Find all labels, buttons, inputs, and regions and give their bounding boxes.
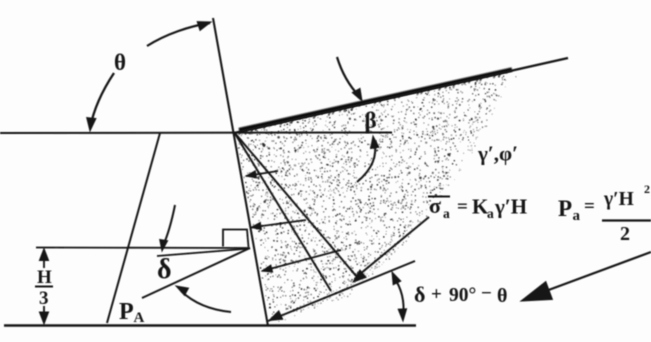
svg-text:3: 3 (39, 288, 49, 309)
svg-text:γ′H: γ′H (494, 195, 527, 219)
svg-text:δ: δ (157, 254, 172, 285)
svg-text:γ′H: γ′H (603, 189, 634, 210)
svg-text:a: a (573, 208, 581, 224)
svg-text:90°: 90° (449, 285, 476, 306)
svg-text:=: = (457, 197, 468, 218)
svg-text:β: β (365, 108, 377, 133)
svg-text:a: a (487, 206, 494, 221)
svg-text:H: H (37, 267, 52, 288)
svg-text:θ: θ (114, 50, 126, 75)
svg-text:P: P (119, 299, 134, 325)
svg-text:δ: δ (414, 282, 425, 307)
svg-text:θ: θ (497, 285, 507, 307)
svg-text:A: A (134, 310, 145, 326)
svg-text:P: P (558, 196, 572, 221)
svg-text:γ′,φ′: γ′,φ′ (477, 142, 518, 166)
svg-text:−: − (481, 283, 492, 304)
svg-text:+: + (431, 284, 442, 305)
svg-text:2: 2 (644, 182, 650, 196)
svg-text:2: 2 (620, 223, 630, 245)
svg-text:=: = (584, 196, 595, 217)
svg-text:a: a (443, 206, 450, 221)
